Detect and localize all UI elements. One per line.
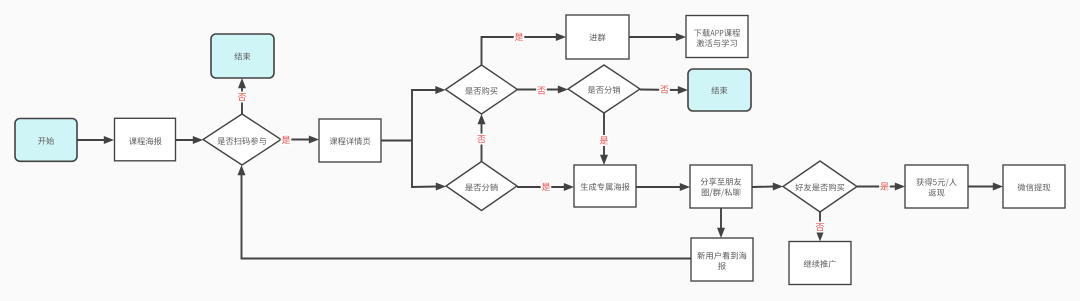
decision: friend buys (好友是否购买) bbox=[783, 161, 857, 212]
node: cashback (获得5元/人返现) bbox=[905, 165, 968, 208]
node: new user sees poster (新用户看到海报) bbox=[691, 238, 753, 281]
decision: distribute bottom (是否分销) bbox=[446, 162, 517, 211]
node: end right (结束) bbox=[688, 69, 751, 111]
wire: distribute-decision-top NO to end-right bbox=[640, 89, 679, 92]
wire: course-detail to split elbow bbox=[381, 140, 412, 142]
wire: distribute-decision-bottom YES to generate-poster bbox=[517, 186, 565, 188]
label: NO above scan-decision bbox=[237, 92, 248, 103]
wire: scan-decision NO up to end-top bbox=[241, 87, 243, 114]
node: continue promotion (继续推广) bbox=[789, 242, 851, 285]
wire: distribute-decision-top YES down to generate-poster bbox=[603, 113, 605, 156]
wire: distribute-decision-bottom NO up to buy-decision bbox=[481, 123, 483, 161]
node: course detail page (课程详情页) bbox=[319, 119, 381, 162]
wire: share to friend-buy-decision bbox=[752, 186, 774, 189]
wire: start to course-poster bbox=[77, 139, 105, 141]
node: end top (结束) bbox=[211, 34, 274, 78]
wire: friend-buy YES to cashback bbox=[857, 186, 896, 188]
label: YES above generate-poster bbox=[599, 135, 610, 146]
label: YES before cashback bbox=[879, 181, 890, 192]
label: NO before end-right bbox=[659, 84, 670, 95]
node: start (开始) bbox=[15, 119, 77, 162]
label: NO between distribute-bottom and buy bbox=[476, 134, 487, 145]
node: join group (进群) bbox=[566, 15, 629, 59]
node: course poster (课程海报) bbox=[115, 118, 176, 161]
label: YES after scan-decision bbox=[281, 135, 292, 146]
node: wechat withdraw (微信提现) bbox=[1003, 165, 1065, 208]
label: YES to join-group bbox=[514, 32, 525, 43]
node: download app course (下载APP课程激活与学习) bbox=[686, 16, 748, 58]
wire: scan-decision YES to course-detail bbox=[281, 139, 310, 141]
decision: scan QR participate (是否扫码参与) bbox=[203, 114, 281, 165]
wire: split vertical trunk bbox=[411, 90, 413, 187]
decision: distribute top (是否分销) bbox=[568, 65, 640, 113]
wire: buy-decision NO to distribute-decision-top bbox=[518, 89, 559, 91]
wire: course-poster to scan-decision bbox=[176, 139, 194, 141]
decision: buy or not (是否购买) bbox=[446, 65, 518, 114]
label: YES before generate-poster bbox=[541, 182, 552, 193]
label: NO between buy and distribute-top bbox=[536, 85, 547, 96]
node: generate exclusive poster (生成专属海报) bbox=[574, 165, 636, 207]
wire: cashback to wechat-withdraw bbox=[968, 186, 994, 188]
label: NO above continue-promotion bbox=[815, 222, 826, 233]
wire: trunk to distribute-decision-bottom bbox=[411, 186, 437, 189]
node: share to friends (分享至朋友圈/群/私聊) bbox=[690, 165, 752, 208]
wire: buy-decision YES up-right to join-group bbox=[482, 37, 557, 65]
wire: friend-buy NO down to continue-promotion bbox=[819, 212, 821, 232]
wire: new-user feedback loop back to scan-decision bbox=[242, 174, 692, 258]
wire: generate-poster to share bbox=[636, 186, 681, 188]
wire: share down to new-user-sees-poster bbox=[720, 208, 722, 229]
wire: trunk to buy-decision bbox=[411, 89, 436, 91]
wire: join-group to download-app bbox=[629, 36, 677, 38]
